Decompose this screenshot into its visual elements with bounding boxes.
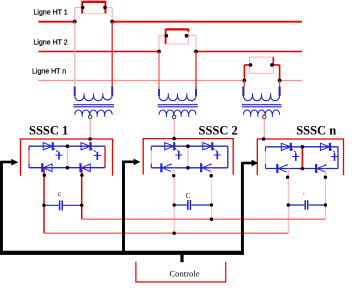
node Ligne HT 2 left junction — [157, 50, 161, 54]
node SSSC2 left leg dot — [172, 174, 175, 177]
node S1 left terminal — [81, 6, 85, 10]
wire Ligne HT n right segment — [280, 80, 303, 82]
box SSSC 2 enclosure — [143, 139, 233, 175]
wire dc bus upper (right cap nodes) — [82, 218, 326, 220]
svg-text:SSSC 1: SSSC 1 — [29, 123, 68, 137]
wire SSSCn left dc leg — [287, 169, 289, 234]
wire T1 tap to SSSC 1 — [89, 119, 91, 139]
capacitor C3 — [288, 200, 325, 209]
wire T2 primary lead right — [195, 52, 197, 90]
wire dc bus lower (left cap nodes) — [44, 232, 288, 234]
wire control bottom bus — [0, 251, 244, 255]
node T2 secondary tap circle — [173, 115, 176, 118]
wire bridge1 left column — [28, 146, 30, 168]
transformer T3 — [242, 93, 282, 117]
node C2 left — [173, 203, 176, 206]
node bridge1 middle bottom — [66, 166, 70, 170]
wire SSSC1 right dc leg — [81, 168, 83, 220]
wire Ligne HT 1 left segment — [38, 21, 74, 23]
node SSSC2 tap junction — [172, 137, 176, 141]
wire bridge2 bottom rail — [151, 167, 228, 169]
diode D1a (SSSC1 bottom-left) — [42, 163, 52, 172]
node Ligne HT n left junction — [243, 79, 247, 83]
node SSSCn left leg dot — [286, 176, 289, 179]
wire T1 primary lead left — [74, 22, 76, 87]
wire T2 primary lead left — [158, 52, 160, 90]
svg-text:Ligne HT 1: Ligne HT 1 — [34, 9, 68, 16]
svg-text:Controle: Controle — [169, 268, 199, 278]
svg-text:c: c — [303, 191, 306, 197]
node C1 left — [42, 204, 45, 207]
node Ligne HT 2 right junction — [194, 50, 198, 54]
wire Ligne HT 1 right segment — [112, 21, 302, 23]
node S1 right terminal — [103, 6, 107, 10]
node SSSC1 right leg dot — [80, 174, 83, 177]
wire S1 right stub — [105, 8, 112, 22]
wire controle stub — [180, 254, 183, 262]
wire T1 primary lead right — [111, 22, 113, 87]
wire bridge3 bottom rail — [266, 168, 339, 170]
wire bridge1 bottom rail — [29, 167, 105, 169]
node SSSC1 left leg dot — [43, 174, 46, 177]
wire Ligne HT n left segment — [38, 80, 242, 82]
wire bridge1 middle column — [66, 146, 68, 168]
wire S2 left stub — [159, 36, 166, 52]
node S3 left terminal — [249, 63, 253, 67]
node S2 left terminal — [165, 34, 169, 38]
node bridge2 middle bottom — [186, 166, 190, 170]
wire SSSC1 left dc leg — [43, 168, 45, 234]
wire bridge3 top rail — [266, 146, 339, 148]
wire bridge1 right column — [104, 146, 106, 168]
wire T3 primary leads — [244, 81, 279, 87]
wire control riser 2 — [122, 161, 125, 255]
wire T3 tap to SSSC n — [263, 119, 265, 139]
node Ligne HT 1 right junction — [110, 20, 114, 24]
wire bridge1 top rail — [29, 145, 105, 147]
svg-text:SSSC 2: SSSC 2 — [199, 124, 238, 138]
transformer T1 — [73, 93, 114, 117]
node dc bus lower SSSC2 tie — [173, 232, 176, 235]
wire bridge2 left column — [150, 146, 152, 168]
wire bridge2 right column — [227, 146, 229, 168]
thyristor Q3b (SSSCn top-right) — [320, 143, 338, 161]
node Ligne HT n right junction — [278, 79, 282, 83]
node SSSCn tap junction — [262, 137, 266, 141]
node C3 left — [287, 203, 290, 206]
node SSSC1 tap junction — [88, 137, 92, 141]
wire control arm 2 — [124, 161, 134, 164]
wire SSSC2 right dc leg — [210, 168, 212, 219]
diode D3b (SSSCn bottom-right) — [316, 164, 326, 173]
svg-text:Ligne HT 2: Ligne HT 2 — [34, 39, 68, 46]
thyristor Q3a (SSSCn top-left) — [281, 143, 299, 161]
svg-text:SSSC n: SSSC n — [296, 124, 336, 138]
node C2 right — [210, 203, 213, 206]
switch S2 bypass breaker on Ligne HT 2 — [166, 29, 189, 44]
node bridge3 middle top — [301, 145, 305, 149]
wire control riser 3 — [241, 162, 244, 255]
wire S2 right stub — [188, 36, 196, 52]
thyristor Q2a (SSSC2 top-left) — [165, 142, 183, 159]
box SSSC n enclosure — [257, 139, 343, 175]
svg-text:c: c — [58, 189, 62, 198]
wire control arm 3 — [242, 162, 251, 165]
node T3 secondary tap circle — [263, 115, 266, 118]
node SSSC2 right leg dot — [210, 174, 213, 177]
thyristor Q1b (SSSC1 top-right) — [81, 142, 101, 160]
node bridge3 middle bottom — [301, 167, 305, 171]
svg-text:Ligne HT n: Ligne HT n — [32, 69, 66, 76]
wire bridge3 middle column — [301, 147, 303, 169]
wire S1 left stub — [75, 8, 83, 22]
wire bridge3 left column — [265, 147, 267, 169]
node S3 right terminal — [270, 63, 274, 67]
capacitor C2 — [174, 200, 211, 210]
node Ligne HT 1 left junction — [73, 20, 77, 24]
wire Ligne HT 2 left segment — [38, 51, 159, 53]
box SSSC 1 enclosure — [21, 139, 113, 176]
node bridge1 middle top — [66, 144, 70, 148]
switch S3 bypass breaker on Ligne HT n — [244, 57, 279, 80]
diode D1b (SSSC1 bottom-right) — [81, 163, 91, 172]
node C1 right — [80, 204, 83, 207]
diode D2a (SSSC2 bottom-left) — [161, 163, 171, 172]
diode D3a (SSSCn bottom-left) — [277, 164, 287, 173]
node S2 right terminal — [185, 34, 189, 38]
node C3 right — [324, 203, 327, 206]
transformer T2 — [158, 93, 198, 117]
wire bridge2 middle column — [187, 146, 189, 168]
node bridge2 middle top — [186, 144, 190, 148]
node SSSCn right leg dot — [324, 176, 327, 179]
wire Ligne HT 2 right segment — [196, 51, 302, 53]
wire bridge3 right column — [337, 147, 339, 169]
capacitor C1 — [44, 200, 82, 210]
thyristor Q2b (SSSC2 top-right) — [203, 142, 221, 159]
thyristor Q1a (SSSC1 top-left) — [43, 142, 62, 159]
node T1 secondary tap circle — [89, 115, 92, 118]
switch S1 bypass breaker on Ligne HT 1 — [82, 1, 105, 14]
svg-text:C: C — [186, 192, 191, 200]
wire SSSCn right dc leg — [324, 169, 326, 220]
diode D2b (SSSC2 bottom-right) — [201, 163, 211, 172]
wire control riser 1 — [0, 161, 3, 255]
wire SSSC2 left dc leg — [173, 168, 175, 233]
node dc bus upper SSSC2 tie — [210, 218, 213, 221]
wire control arm 1 — [1, 161, 12, 164]
wire bridge2 top rail — [151, 145, 228, 147]
wire T2 tap to SSSC 2 — [173, 119, 175, 139]
box Controle — [136, 262, 226, 282]
